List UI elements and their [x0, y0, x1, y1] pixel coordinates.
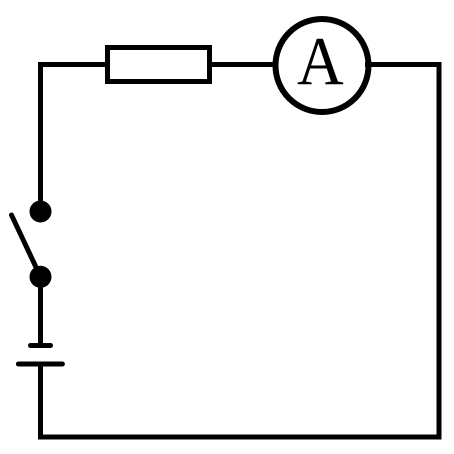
switch lever: [12, 215, 41, 277]
resistor R: [108, 48, 210, 82]
switch bottom contact dot: [30, 266, 52, 288]
wire left-top: from switch top dot up and across to resistor: [41, 65, 106, 212]
svg-text:A: A: [297, 23, 344, 99]
switch top contact dot: [30, 201, 52, 223]
wire resistor to ammeter: [212, 62, 280, 67]
wire ammeter to right side, bottom, up to battery: [41, 65, 440, 438]
ammeter U1 circle: [276, 19, 369, 112]
battery long plate (positive): [18, 362, 62, 367]
wire battery to switch bottom dot: [38, 277, 43, 346]
battery short plate (negative): [31, 343, 51, 348]
